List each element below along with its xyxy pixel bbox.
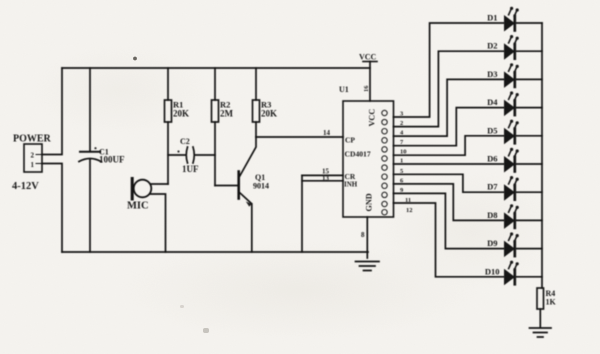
resistor R3 top lead [255, 68, 257, 100]
resistor R3 body [253, 100, 260, 122]
wire D6 cathode to bus [516, 163, 542, 165]
transistor Q1 base bar [237, 172, 240, 199]
wire D4 cathode to bus [516, 107, 542, 109]
LED D5 [505, 120, 519, 145]
wire pin 11 to LED D10 [394, 203, 504, 277]
capacitor C1 lead from top rail [89, 68, 91, 152]
LED D4 [505, 91, 519, 116]
resistor R4 body [537, 288, 544, 309]
IC U1 output indicator circles [382, 110, 387, 215]
ground symbol under IC [356, 262, 380, 271]
IC U1 body outline [343, 101, 394, 217]
capacitor C1 bottom curved plate [79, 159, 101, 162]
wire left vertical from connector pin 1 to bottom rail [42, 164, 62, 253]
wire D10 cathode to bus [516, 276, 542, 278]
resistor R2 top lead [214, 68, 216, 100]
wire D7 cathode to bus [516, 191, 542, 193]
resistor R1 bottom lead down to mic node [167, 122, 169, 184]
capacitor C2 polarity dot [177, 150, 179, 152]
wire pin 2 to LED D2 [394, 51, 504, 126]
wire D9 cathode to bus [516, 248, 542, 250]
connector pin 1 tick [36, 163, 42, 165]
wire emitter to bottom rail [251, 204, 253, 252]
wire pin 9 to LED D9 [394, 193, 504, 248]
wire bottom ground rail [62, 251, 368, 253]
LED D9 [505, 232, 519, 257]
capacitor C2 left lead from R1 node [168, 154, 185, 156]
wire pin 3 to LED D1 [394, 23, 504, 117]
capacitor C2 left plate [186, 147, 187, 163]
ground symbol below R4 [530, 328, 552, 337]
wire top supply rail [62, 67, 370, 69]
LED D10 [505, 261, 519, 286]
wire INH pin 13 stub [302, 180, 343, 182]
wire LED cathode bus vertical [541, 23, 543, 288]
wire pin 5 to LED D7 [394, 174, 504, 192]
VCC pin 16 wire from symbol into IC top [369, 62, 371, 102]
LED D6 [505, 148, 519, 173]
resistor R3 bottom lead to collector node [255, 122, 257, 137]
transistor Q1 emitter arrowhead [246, 201, 252, 206]
microphone MIC left bar [131, 179, 134, 200]
wire collector node to IC CP pin 14 [256, 136, 343, 138]
LED D7 [505, 176, 519, 201]
wire R4 bottom lead [539, 309, 541, 327]
LED D8 [505, 204, 519, 229]
transistor Q1 collector stroke [240, 137, 257, 177]
wire pin 1 to LED D6 [394, 163, 504, 165]
LED D1 [505, 7, 519, 32]
capacitor C2 right lead to R2 vertical [196, 154, 216, 156]
transistor Q1 base wire from R2 [215, 185, 238, 187]
wire D5 cathode to bus [516, 135, 542, 137]
wire CR pin 15 stub [302, 174, 343, 176]
capacitor C1 lead to bottom rail [89, 159, 91, 252]
microphone MIC body circle [134, 180, 152, 198]
transistor Q1 emitter stroke [240, 193, 252, 204]
wire D8 cathode to bus [516, 219, 542, 221]
wire MIC top terminal to R1 node [151, 183, 168, 185]
LED D3 [505, 63, 519, 88]
capacitor C2 right plate [193, 147, 194, 163]
wire pin 4 to LED D3 [394, 79, 504, 136]
resistor R2 bottom lead down to base node [214, 122, 216, 186]
connector pin 2 tick [36, 154, 42, 156]
VCC symbol bar [363, 61, 377, 63]
wire CR and INH tie down to ground rail [301, 175, 303, 252]
wire MIC bottom terminal to ground rail [151, 194, 166, 252]
capacitor C1 polarity dot [94, 147, 96, 149]
capacitor C1 top plate [80, 151, 100, 153]
wire pin 6 to LED D8 [394, 184, 504, 221]
GND pin 8 wire from IC bottom to ground [366, 217, 368, 258]
wire pin 7 to LED D4 [394, 108, 504, 146]
resistor R1 top lead [167, 68, 169, 100]
LED D2 [505, 35, 519, 60]
wire left vertical from connector pin 2 to top rail [42, 68, 62, 155]
connector J1 POWER box [24, 144, 42, 172]
wire pin 10 to LED D5 [394, 136, 504, 155]
wire D3 cathode to bus [516, 78, 542, 80]
resistor R2 body [212, 100, 219, 122]
wire D1 cathode to bus [516, 22, 542, 24]
wire D2 cathode to bus [516, 50, 542, 52]
resistor R1 body [165, 100, 172, 122]
